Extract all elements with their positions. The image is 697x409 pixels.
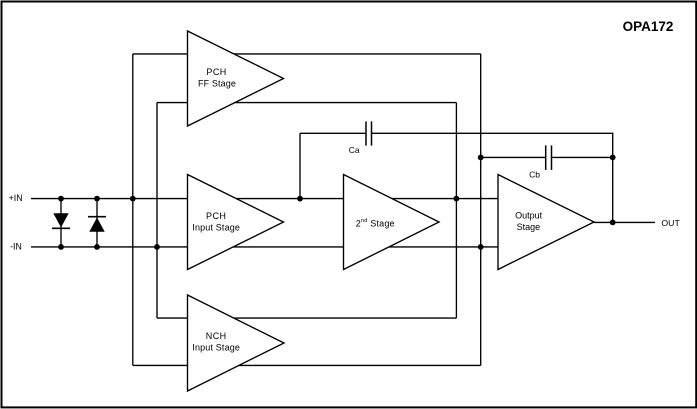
wire Cb left segment [481, 156, 546, 158]
wire right feedback vertical [612, 133, 614, 222]
wire NCH lower line [133, 364, 481, 366]
wire Ca left drop [299, 133, 301, 198]
label PCH FF Stage [198, 67, 236, 88]
svg-text:Cb: Cb [529, 169, 540, 179]
svg-text:OUT: OUT [661, 218, 680, 228]
svg-text:NCH: NCH [206, 331, 227, 341]
node +IN/D2 junction [94, 196, 100, 202]
op-amp PCH Input Stage triangle [188, 175, 284, 270]
wire diode D2 branch [96, 199, 98, 247]
wire diode D1 branch [60, 199, 62, 247]
wire Cb right segment [552, 156, 614, 158]
label PCH Input Stage [192, 211, 240, 232]
wire -IN horizontal net [31, 246, 498, 248]
svg-text:PCH: PCH [206, 67, 226, 77]
op-amp NCH Input Stage triangle [188, 295, 285, 391]
node -IN/D1 junction [58, 244, 64, 250]
capacitor Ca plates [366, 121, 372, 145]
node -IN/D2 junction [94, 244, 100, 250]
svg-text:PCH: PCH [206, 211, 226, 221]
diode D2 (cathode up) [88, 217, 106, 232]
wire vertical right outer [480, 54, 482, 366]
svg-text:Ca: Ca [349, 145, 360, 155]
svg-text:-IN: -IN [10, 242, 22, 252]
node +IN/Ca drop junction [297, 196, 303, 202]
svg-text:Input Stage: Input Stage [192, 342, 240, 352]
wire Ca left segment [300, 132, 366, 134]
wire output [594, 221, 655, 223]
wire vertical right inner [455, 103, 457, 319]
wire NCH upper line [157, 317, 456, 319]
capacitor Cb plates [546, 145, 552, 170]
svg-text:OPA172: OPA172 [623, 19, 674, 34]
node -IN/right outer vertical junction [478, 244, 484, 250]
node Cb left junction [478, 155, 484, 161]
svg-text:Stage: Stage [517, 222, 541, 232]
node Cb right junction [610, 155, 616, 161]
svg-text:FF Stage: FF Stage [198, 78, 236, 88]
node -IN/left inner vertical junction [154, 244, 160, 250]
label Output Stage [515, 211, 543, 232]
svg-text:Input Stage: Input Stage [192, 223, 240, 233]
diode D1 (cathode down) [52, 213, 70, 228]
node output junction [610, 220, 616, 226]
wire vertical left outer [132, 54, 134, 366]
wire Ca right segment [372, 132, 614, 134]
op-amp Output Stage triangle [498, 175, 594, 270]
node +IN/D1 junction [58, 196, 64, 202]
wire +IN horizontal net [31, 198, 498, 200]
svg-text:Output: Output [515, 211, 543, 221]
wire vertical left inner [156, 103, 158, 319]
node +IN/right inner vertical junction [454, 196, 460, 202]
wire FF stage upper line [133, 53, 481, 55]
wire FF stage lower line [157, 102, 456, 104]
op-amp PCH FF Stage triangle [188, 31, 284, 126]
op-amp 2nd Stage triangle [344, 175, 440, 270]
label NCH Input Stage [192, 331, 240, 352]
node +IN/left outer vertical junction [130, 196, 136, 202]
svg-text:+IN: +IN [9, 193, 23, 203]
